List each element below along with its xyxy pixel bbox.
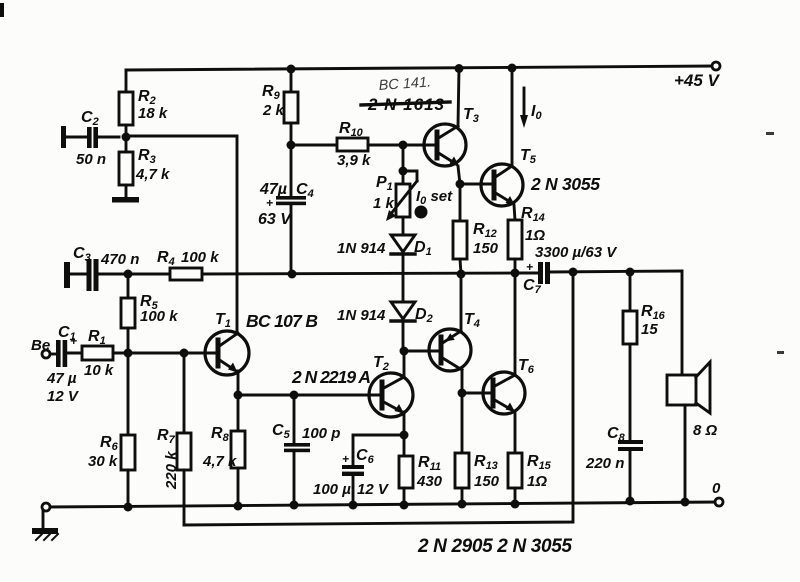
label R7 220 k: [157, 427, 180, 490]
svg-text:63 V: 63 V: [258, 211, 292, 228]
svg-text:470 n: 470 n: [100, 251, 139, 268]
wire T4 collector to T6 base node: [461, 370, 464, 393]
svg-text:10 k: 10 k: [84, 362, 114, 379]
label C6 + 100 µ 12 V: [313, 447, 390, 498]
svg-text:150: 150: [474, 473, 500, 490]
capacitor C4: [276, 145, 306, 274]
scan speck right edge: [766, 132, 774, 135]
label R1 10 k: [84, 328, 114, 379]
transistor T4: [429, 329, 471, 371]
node ground speaker: [681, 498, 690, 507]
node R10/T3 base/P1 junction: [399, 141, 408, 150]
node C5 junction: [290, 391, 299, 400]
label T5 2 N 3055: [520, 147, 600, 194]
node ground R13: [458, 500, 467, 509]
label 2 N 1613 crossed out: [361, 95, 450, 114]
svg-text:8 Ω: 8 Ω: [693, 422, 718, 439]
label C8 220 n: [585, 425, 626, 472]
wire T3 emitter to T5 base and R12: [458, 166, 494, 221]
node R7 input junction: [180, 349, 189, 358]
label C3 470 n: [73, 245, 139, 268]
svg-text:50 n: 50 n: [76, 151, 106, 168]
label P1 1 k: [373, 174, 395, 212]
resistor R5: [121, 274, 135, 353]
transistor T3: [424, 124, 466, 166]
terminal ground left: [42, 503, 50, 511]
node ground R8: [234, 502, 243, 511]
capacitor C8: [618, 440, 643, 501]
capacitor C3: [70, 259, 170, 291]
svg-text:220 k: 220 k: [163, 451, 180, 490]
wire T6 emitter to R15: [514, 412, 517, 453]
loudspeaker 8 Ω: [667, 362, 710, 502]
resistor R13: [455, 393, 469, 504]
label C1 + 47 µ 12 V: [46, 324, 80, 405]
svg-text:BC 107 B: BC 107 B: [246, 311, 318, 331]
label T2 2 N 2219 A: [291, 354, 389, 387]
terminal input C3: [64, 262, 70, 288]
svg-text:100 k: 100 k: [181, 249, 219, 266]
label D2 1N 914: [337, 306, 433, 325]
node ground C5: [290, 501, 299, 510]
label D1 1N 914: [337, 239, 432, 258]
node rail/T5 collector: [508, 64, 517, 73]
svg-text:220 n: 220 n: [585, 455, 624, 472]
node ground R6: [124, 503, 133, 512]
svg-text:1N 914: 1N 914: [337, 307, 386, 324]
svg-text:1 k: 1 k: [373, 195, 395, 212]
label R4 100 k: [157, 249, 219, 268]
label R14 1 Ω: [521, 205, 545, 244]
svg-text:30 k: 30 k: [88, 453, 118, 470]
svg-text:47 µ: 47 µ: [46, 370, 77, 387]
diode D2: [391, 302, 415, 351]
wire T5 collector to rail: [511, 68, 514, 166]
diode D1: [391, 235, 415, 302]
wire ground line: [46, 502, 719, 507]
node ground C6: [349, 501, 358, 510]
resistor R4: [170, 268, 202, 280]
transistor T1: [205, 331, 249, 375]
svg-text:100 p: 100 p: [302, 425, 340, 442]
svg-text:2 k: 2 k: [262, 102, 285, 119]
svg-text:2 N 2219 A: 2 N 2219 A: [291, 367, 371, 387]
svg-text:2 N 2905 2 N 3055: 2 N 2905 2 N 3055: [417, 536, 572, 557]
node ground R15: [511, 500, 520, 509]
resistor R9: [284, 69, 298, 145]
transistor T5: [481, 164, 523, 206]
wire T2 emitter to R11 node: [403, 412, 406, 435]
resistor R15: [508, 453, 522, 504]
label T1 BC 107 B: [215, 311, 318, 331]
label R9 2 k: [262, 83, 285, 119]
wire R3 to ground: [125, 185, 128, 198]
svg-text:1N 914: 1N 914: [337, 240, 386, 257]
transistor T6: [483, 372, 525, 414]
capacitor C6: [342, 435, 404, 505]
node T3 emitter junction: [456, 180, 465, 189]
node R9/R10/C4 junction: [287, 141, 296, 150]
label R5 100 k: [140, 293, 178, 325]
node rail/T3 collector: [455, 64, 464, 73]
node output/R16 junction: [626, 268, 635, 277]
wire output line R4 to C7: [202, 273, 538, 274]
node ground C8: [626, 497, 635, 506]
svg-text:4,7 k: 4,7 k: [202, 453, 237, 470]
arrow I0: [520, 88, 528, 128]
svg-text:12 V: 12 V: [357, 481, 390, 498]
wire T3 collector to rail: [458, 68, 459, 126]
label R13 150: [474, 453, 500, 490]
wire feedback R2/R3 junction to T1 collector: [126, 136, 237, 332]
scan speck right middle: [777, 351, 784, 354]
wire T6 collector to output line: [514, 273, 517, 375]
node T2 emitter junction: [400, 431, 409, 440]
label R12 150: [473, 221, 499, 257]
node rail/R9 junction: [287, 65, 296, 74]
wire T1 emitter node: [238, 371, 382, 431]
label C2 50 n: [76, 109, 106, 168]
label R15 1 Ω: [527, 453, 552, 490]
wire rail to R2: [125, 70, 128, 92]
resistor R12: [453, 221, 467, 274]
node T4 collector/T6 base/R13 junction: [458, 389, 467, 398]
wire T4 emitter to output line: [460, 274, 463, 331]
label I0 set: [415, 188, 454, 219]
node feedback/output junction: [569, 268, 578, 277]
wire node to T6 base: [462, 392, 493, 395]
capacitor C1: [50, 340, 82, 367]
terminal 0 output: [715, 498, 723, 506]
svg-text:0: 0: [712, 480, 721, 497]
resistor R2: [119, 92, 133, 125]
svg-text:2 N 3055: 2 N 3055: [530, 174, 600, 194]
label R8 4,7 k: [202, 425, 237, 470]
resistor R10: [291, 138, 437, 151]
svg-text:1Ω: 1Ω: [525, 227, 545, 244]
wire node to T4 base: [404, 350, 441, 353]
node C3/R5 junction: [124, 270, 133, 279]
svg-text:+: +: [70, 334, 77, 348]
ground symbol left: [32, 511, 58, 540]
svg-text:100 k: 100 k: [140, 308, 178, 325]
terminal +45 V: [712, 62, 720, 70]
node T1 emitter junction: [234, 391, 243, 400]
scan artifact top-left corner: [0, 3, 4, 17]
svg-text:+: +: [342, 452, 349, 466]
wire T2 collector to D2/T4 base node: [403, 351, 406, 377]
wire R2 to R3: [125, 125, 128, 152]
svg-text:15: 15: [641, 321, 658, 338]
capacitor C2: [61, 126, 119, 148]
resistor R8: [231, 431, 245, 506]
svg-text:Be: Be: [31, 337, 50, 354]
label R10 3,9 k: [337, 120, 371, 169]
wire R10 node down to P1: [402, 145, 405, 184]
label C5 100 p: [272, 422, 340, 442]
potentiometer P1: [386, 171, 417, 235]
label R16 15: [641, 303, 666, 338]
svg-text:12 V: 12 V: [47, 388, 80, 405]
wire feedback R7 to output: [184, 272, 573, 525]
node P1 top junction: [399, 167, 408, 176]
wire +45V supply rail: [126, 66, 713, 70]
resistor R11: [399, 435, 413, 505]
resistor R6: [121, 353, 135, 507]
svg-text:3300 µ/63 V: 3300 µ/63 V: [535, 244, 618, 261]
wire input line R1 to T1 base: [113, 352, 218, 355]
svg-text:+45 V: +45 V: [674, 71, 721, 90]
node R14/T6 collector junction: [511, 269, 520, 278]
svg-text:430: 430: [416, 473, 443, 490]
capacitor C5: [284, 395, 310, 505]
label C7 + 3300 µ/63 V: [523, 244, 618, 296]
resistor R14: [508, 220, 522, 273]
label R3 4,7 k: [135, 147, 170, 183]
label R2 18 k: [138, 88, 168, 122]
node R5/R6 input junction: [124, 349, 133, 358]
svg-text:+: +: [526, 260, 533, 274]
capacitor C7: [515, 262, 682, 284]
svg-text:100 µ: 100 µ: [313, 481, 351, 498]
resistor R1: [82, 346, 113, 360]
transistor T2: [369, 373, 413, 417]
svg-text:+: +: [266, 196, 273, 210]
label C4 47µ + 63 V: [258, 181, 314, 228]
ground below R3: [112, 197, 139, 203]
resistor R16: [623, 272, 637, 440]
node C4 junction: [288, 270, 297, 279]
terminal Be input: [42, 350, 50, 358]
wire T5 emitter to R14: [514, 205, 515, 220]
svg-text:3,9 k: 3,9 k: [337, 152, 371, 169]
svg-text:18 k: 18 k: [138, 105, 168, 122]
node D2/T2 collector/T4 base junction: [400, 347, 409, 356]
resistor R7: [177, 353, 191, 525]
svg-text:4,7 k: 4,7 k: [135, 166, 170, 183]
node R2/R3/C2 junction: [122, 133, 131, 142]
resistor R3: [119, 152, 133, 185]
svg-text:150: 150: [473, 240, 499, 257]
label R6 30 k: [88, 434, 119, 470]
svg-text:1Ω: 1Ω: [527, 473, 547, 490]
node ground R11: [400, 501, 409, 510]
label R11 430: [416, 454, 443, 490]
node R12/T4 emitter junction: [457, 270, 466, 279]
wire output to speaker: [681, 271, 684, 375]
